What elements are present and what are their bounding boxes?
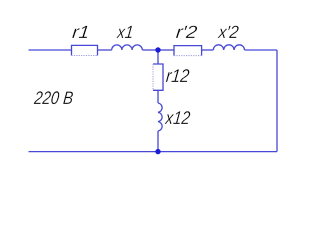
- wire right vertical: [276, 50, 278, 152]
- resistor R'2: [174, 46, 202, 56]
- svg-text:r12: r12: [165, 65, 190, 86]
- svg-text:x1: x1: [116, 22, 135, 42]
- wire bottom rail: [29, 151, 278, 153]
- wire node A down to r12: [157, 50, 159, 64]
- wire r12 to x12: [157, 90, 159, 103]
- wire top-left terminal: [29, 49, 72, 51]
- inductor x'2: [213, 45, 244, 50]
- wire x'2 to right corner: [245, 49, 278, 51]
- svg-text:r1: r1: [71, 22, 90, 42]
- node B junction dot: [155, 149, 160, 154]
- svg-text:x′2: x′2: [217, 22, 240, 42]
- resistor R12: [153, 64, 163, 90]
- node A junction dot: [155, 47, 160, 52]
- svg-text:220 В: 220 В: [33, 87, 75, 108]
- wire x12 to node B: [157, 131, 159, 152]
- svg-text:x12: x12: [164, 107, 192, 128]
- wire r'2 to x'2: [202, 49, 214, 51]
- svg-text:r′2: r′2: [175, 22, 198, 42]
- wire x1 to node A: [142, 49, 158, 51]
- inductor x12: [158, 103, 162, 131]
- wire node A to r'2: [158, 49, 174, 51]
- resistor R1: [72, 45, 98, 55]
- wire r1 to x1: [98, 49, 112, 51]
- inductor x1: [112, 45, 143, 50]
